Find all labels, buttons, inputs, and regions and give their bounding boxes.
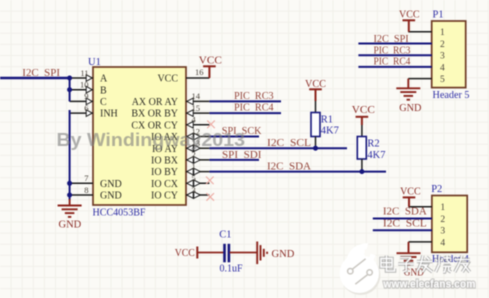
svg-text:C1: C1 [219, 230, 231, 241]
value label Header 5 [433, 90, 470, 101]
U1 pin 1 (IO BY) [151, 161, 209, 178]
svg-text:I2C SCL: I2C SCL [267, 138, 311, 149]
junction node pin 7 [67, 181, 72, 186]
power port VCC C1 [197, 247, 224, 259]
P2 pin 1 [409, 203, 446, 213]
header P2 body [432, 196, 467, 253]
wire I2C SDA to P2 [373, 218, 432, 220]
value label 0.1uF [220, 264, 243, 275]
IC U1 body [93, 67, 186, 205]
svg-text:3: 3 [440, 227, 445, 237]
svg-text:11: 11 [80, 68, 88, 78]
junction node pin B [67, 87, 72, 92]
U1 pin 9 (C) [70, 91, 107, 108]
svg-text:9: 9 [84, 91, 88, 101]
power symbol VCC R1 [309, 89, 322, 101]
svg-text:4: 4 [440, 63, 445, 73]
svg-text:5: 5 [192, 173, 196, 183]
net label I2C SCL [267, 138, 311, 149]
net label I2C SDA (P2) [383, 206, 427, 217]
ground symbol below U1 [58, 199, 82, 217]
svg-text:4K7: 4K7 [321, 126, 339, 137]
wire I2C SCL [209, 147, 347, 149]
net label I2C SDA [267, 162, 312, 173]
svg-text:16: 16 [195, 67, 204, 77]
wire SPI SCK [209, 136, 259, 138]
no-ERC marker pin 5 [206, 177, 214, 185]
svg-text:U1: U1 [88, 57, 101, 68]
header P1 body [432, 21, 466, 88]
power symbol VCC R2 [356, 117, 369, 125]
svg-text:PIC RC3: PIC RC3 [234, 91, 274, 102]
svg-text:IO CX: IO CX [151, 179, 179, 190]
value label 4K7 (R1) [321, 126, 339, 137]
svg-text:GND: GND [100, 191, 122, 202]
svg-text:1: 1 [440, 203, 445, 213]
designator R1 [321, 115, 333, 126]
net label PIC RC3 (P1) [374, 45, 411, 56]
net label PIC RC4 (left) [234, 103, 274, 114]
wire I2C SPI horizontal [0, 77, 70, 80]
net label I2C SPI [22, 68, 60, 79]
svg-text:GND: GND [59, 219, 82, 231]
svg-text:VCC: VCC [199, 55, 222, 67]
svg-text:8: 8 [84, 185, 88, 195]
U1 pin 12 (IO AX) [151, 126, 209, 143]
svg-text:VCC: VCC [305, 78, 326, 90]
svg-text:I2C SPI: I2C SPI [22, 68, 60, 79]
watermark text elecfans chinese [381, 256, 470, 273]
svg-text:IO BY: IO BY [151, 167, 178, 178]
net label I2C SPI (P1) [374, 34, 410, 45]
svg-text:I2C SDA: I2C SDA [383, 206, 427, 217]
wire PIC RC4 to P1 [358, 66, 431, 68]
U1 pin 3 (IO CY) [151, 185, 209, 202]
svg-text:GND: GND [272, 248, 295, 260]
watermark By Windingway2013 [57, 130, 246, 150]
svg-text:3: 3 [440, 52, 445, 62]
U1 pin 2 (IO BX) [151, 150, 209, 167]
power label VCC P1 [399, 9, 420, 21]
svg-text:1: 1 [440, 28, 445, 38]
svg-text:A: A [100, 74, 108, 85]
U1 pin 14 (AX OR AY) [132, 91, 210, 108]
power label GND P1 [399, 102, 421, 114]
svg-text:GND: GND [100, 179, 122, 190]
value label Header 4 [432, 254, 470, 265]
junction node R1/SCL [313, 146, 318, 151]
svg-text:Header 5: Header 5 [433, 90, 470, 101]
resistor R2 [357, 125, 366, 172]
net label PIC RC3 (left) [234, 91, 274, 102]
wire INH-GND vertical [69, 110, 71, 200]
value label HCC4053BF [93, 208, 146, 219]
power symbol VCC P2 [403, 197, 416, 206]
U1 pin 13 (IO AY) [152, 138, 209, 155]
logo elecfans circle [340, 243, 381, 295]
svg-text:AX OR AY: AX OR AY [132, 97, 178, 108]
power label VCC P2 [400, 186, 421, 198]
wire SPI SDI [209, 159, 259, 161]
ground symbol P1 [396, 79, 420, 100]
designator P2 [431, 184, 442, 195]
P1 pin 5 [408, 75, 445, 85]
svg-text:B: B [100, 85, 107, 96]
svg-text:I2C SDA: I2C SDA [267, 162, 312, 173]
P1 pin 4 [408, 63, 445, 73]
svg-text:14: 14 [192, 91, 201, 101]
P1 pin 1 [408, 28, 445, 38]
value label 4K7 (R2) [367, 150, 385, 161]
svg-text:R2: R2 [367, 139, 379, 150]
power label VCC C1 [175, 247, 195, 259]
svg-text:VCC: VCC [175, 247, 195, 259]
designator R2 [367, 139, 379, 150]
svg-text:2: 2 [440, 40, 445, 50]
svg-text:INH: INH [100, 109, 118, 120]
watermark text www.elecfans.com [382, 279, 475, 291]
svg-text:R1: R1 [321, 115, 333, 126]
power label GND C1 [272, 248, 295, 260]
U1 pin 6 (INH) [70, 103, 118, 120]
net label I2C SCL (P2) [383, 218, 427, 229]
no-ERC marker pin 4 [207, 121, 215, 129]
ground symbol C1 (rotated) [257, 242, 267, 265]
svg-text:IO CY: IO CY [151, 191, 178, 202]
svg-text:4: 4 [440, 238, 445, 248]
U1 pin 11 (A) [70, 68, 108, 85]
wire I2C SCL to P2 [373, 229, 432, 231]
junction node pin A [67, 76, 72, 81]
resistor R1 [311, 101, 320, 148]
capacitor C1 [225, 244, 229, 262]
U1 pin 10 (B) [70, 80, 107, 97]
wire PIC RC3 to P1 [358, 54, 431, 56]
power label GND P2 [404, 267, 424, 279]
power label VCC pin16 [199, 55, 222, 67]
svg-text:5: 5 [440, 75, 445, 85]
junction node R2/SDA [359, 169, 364, 174]
svg-text:15: 15 [192, 103, 201, 113]
power label VCC R1 [305, 78, 326, 90]
wire C1 to GND [230, 252, 257, 254]
no-ERC marker pin 3 [206, 193, 214, 201]
P2 pin 2 [409, 215, 446, 225]
svg-text:VCC: VCC [400, 186, 421, 198]
power label GND below U1 [59, 219, 82, 231]
U1 pin 7 (GND) [70, 173, 122, 190]
U1 pin 8 (GND) [70, 185, 122, 202]
net label PIC RC4 (P1) [374, 57, 411, 68]
svg-text:I2C SCL: I2C SCL [383, 218, 427, 229]
svg-text:P1: P1 [433, 10, 444, 21]
P2 pin 4 [409, 238, 446, 248]
P1 pin 3 [408, 52, 445, 62]
net label SPI SDI [222, 150, 262, 161]
svg-text:BX OR BY: BX OR BY [131, 109, 178, 120]
P2 pin 3 [409, 227, 446, 237]
U1 pin 15 (BX OR BY) [131, 103, 209, 120]
U1 pin 5 (IO CX) [151, 173, 209, 190]
svg-text:www.elecfans.com: www.elecfans.com [382, 279, 475, 291]
P1 pin 2 [408, 40, 445, 50]
svg-text:2: 2 [192, 150, 196, 160]
wire I2C SDA [209, 171, 386, 173]
svg-text:1: 1 [192, 161, 196, 171]
svg-text:IO BX: IO BX [151, 156, 179, 167]
svg-text:PIC RC3: PIC RC3 [374, 45, 411, 56]
svg-text:7: 7 [84, 173, 88, 183]
U1 pin 4 (CX OR CY) [131, 115, 209, 132]
net label SPI SCK [222, 126, 262, 137]
svg-text:10: 10 [80, 80, 89, 90]
wire I2C SPI to P1 [358, 43, 431, 45]
designator C1 [219, 230, 231, 241]
wire PIC RC3 from U1 [209, 100, 281, 102]
svg-text:VCC: VCC [352, 104, 375, 116]
wire A-B-C vertical [69, 78, 71, 101]
svg-text:PIC RC4: PIC RC4 [374, 57, 411, 68]
svg-text:2: 2 [440, 215, 445, 225]
power label VCC R2 [352, 104, 375, 116]
designator U1 [88, 57, 101, 68]
svg-text:4K7: 4K7 [367, 150, 385, 161]
svg-text:GND: GND [399, 102, 421, 114]
svg-text:C: C [100, 97, 107, 108]
wire PIC RC4 from U1 [209, 112, 281, 114]
svg-text:PIC RC4: PIC RC4 [234, 103, 274, 114]
svg-text:VCC: VCC [157, 74, 178, 85]
svg-text:0.1uF: 0.1uF [220, 264, 243, 275]
svg-text:SPI SDI: SPI SDI [222, 150, 262, 161]
power symbol VCC P1 [403, 20, 416, 32]
ground symbol P2 [397, 242, 421, 265]
junction node pin 8 [67, 193, 72, 198]
svg-text:By Windingway2013: By Windingway2013 [57, 130, 246, 150]
U1 pin 16 (VCC) [157, 67, 209, 85]
svg-text:VCC: VCC [399, 9, 420, 21]
svg-text:HCC4053BF: HCC4053BF [93, 208, 146, 219]
svg-text:P2: P2 [431, 184, 442, 195]
designator P1 [433, 10, 444, 21]
svg-text:I2C SPI: I2C SPI [374, 34, 410, 45]
power symbol VCC pin16 [203, 66, 216, 78]
svg-text:3: 3 [192, 185, 196, 195]
svg-text:6: 6 [84, 103, 88, 113]
